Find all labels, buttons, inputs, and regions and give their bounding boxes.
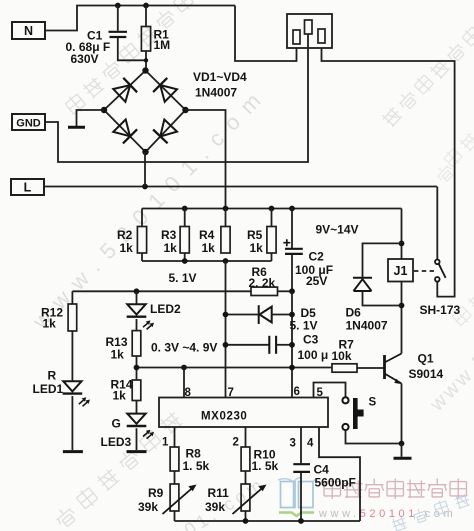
- node D5 left: [223, 312, 229, 318]
- svg-text:R2: R2: [117, 228, 133, 242]
- resistor R5: [267, 227, 276, 254]
- svg-text:7: 7: [228, 387, 234, 399]
- svg-text:1. 5k: 1. 5k: [252, 459, 279, 473]
- wire C1 bottom lead: [118, 38, 146, 61]
- wire bottom ground bus: [175, 520, 361, 522]
- resistor R11 variable: [241, 484, 250, 511]
- wire R14 to LED3: [136, 401, 138, 414]
- node ground R11: [243, 518, 249, 524]
- wire R3 top lead: [184, 209, 186, 227]
- LED LED3: [127, 414, 147, 426]
- watermark logo book icon: [278, 478, 318, 517]
- node bus R4: [223, 206, 229, 212]
- watermark diagonal text right-middle: [450, 289, 474, 328]
- svg-text:2: 2: [233, 437, 239, 449]
- wire R13 to R14: [136, 356, 138, 380]
- node bus R3: [182, 206, 188, 212]
- node J1 top: [399, 241, 405, 247]
- arrow R9 wiper: [163, 485, 197, 515]
- wire Q1 collector: [401, 306, 403, 354]
- node D5 right: [289, 312, 295, 318]
- wire R1 top lead: [145, 6, 147, 27]
- resistor R8: [170, 447, 179, 471]
- node bus C2: [289, 206, 295, 212]
- svg-text:5. 1V: 5. 1V: [290, 319, 318, 333]
- wire R2-R5 bottom tie: [142, 260, 272, 262]
- svg-text:1k: 1k: [120, 241, 134, 255]
- wire bridge bottom to L line: [144, 152, 146, 187]
- wire positive bus: [142, 208, 402, 210]
- wire emitter to ground: [401, 444, 403, 457]
- svg-text:2. 2k: 2. 2k: [249, 276, 276, 290]
- wire connector pin3 to SH-173: [322, 48, 455, 297]
- wire J1 bottom: [401, 282, 403, 306]
- svg-text:G: G: [112, 417, 121, 431]
- svg-text:1k: 1k: [202, 241, 216, 255]
- svg-text:25V: 25V: [306, 274, 327, 288]
- resistor R6: [251, 287, 278, 295]
- svg-text:D6: D6: [346, 306, 362, 320]
- diode VD4: [153, 120, 177, 144]
- capacitor C2: [285, 249, 303, 254]
- node L bridge junction: [142, 184, 148, 190]
- resistor R4: [221, 227, 230, 254]
- wire sense line: [137, 367, 333, 369]
- svg-text:LED3: LED3: [101, 435, 132, 449]
- wire bridge left to earth: [77, 110, 105, 126]
- svg-text:1k: 1k: [111, 348, 125, 362]
- wire IC pin5 to switch S: [314, 383, 346, 398]
- switch S actuator: [353, 398, 364, 429]
- svg-text:1M: 1M: [154, 38, 171, 52]
- wire C2 node down to IC pin6: [291, 291, 293, 397]
- svg-text:10k: 10k: [332, 349, 352, 363]
- node R13 R14 sense: [134, 365, 140, 371]
- capacitor C4: [293, 464, 310, 472]
- node C1 top: [115, 3, 121, 9]
- terminal GND box: [12, 114, 45, 130]
- wire R2 top lead: [141, 209, 143, 227]
- wire bridge edge bottom-left: [104, 110, 146, 152]
- switch SH-173 contacts: [435, 260, 446, 282]
- wire bridge edge bottom-right: [146, 110, 186, 152]
- resistor R13: [132, 331, 141, 356]
- wire IC pin4 ground path: [319, 427, 360, 521]
- resistor R1: [141, 27, 150, 52]
- wire R4 top lead: [225, 209, 227, 227]
- node J1 bottom: [399, 303, 405, 309]
- wire R12 to LED1: [71, 331, 73, 381]
- svg-text:LED2: LED2: [150, 302, 181, 316]
- transistor Q1: [385, 354, 402, 384]
- wire top bus to connector pin1: [235, 6, 297, 62]
- node bridge left: [101, 107, 107, 113]
- node ground C4: [298, 518, 304, 524]
- wire S to emitter node: [346, 430, 402, 443]
- connector J2 pins: [293, 20, 325, 44]
- svg-text:1N4007: 1N4007: [195, 86, 237, 100]
- svg-text:S: S: [369, 397, 377, 409]
- svg-text:5. 1V: 5. 1V: [169, 271, 197, 285]
- ground LED1: [63, 450, 83, 453]
- svg-text:VD1~VD4: VD1~VD4: [193, 70, 247, 84]
- node rail LED2: [134, 288, 140, 294]
- svg-text:5: 5: [317, 387, 324, 399]
- ground emitter: [394, 457, 412, 460]
- wire C2 bottom lead: [291, 255, 293, 291]
- wire R5 bottom lead: [271, 253, 273, 261]
- arrow R11 wiper: [233, 485, 267, 515]
- diode D6: [353, 278, 372, 291]
- wire R4 node down to IC pin7: [225, 261, 227, 398]
- svg-text:MX0230: MX0230: [201, 411, 247, 423]
- resistor R3: [180, 227, 189, 254]
- relay J1 outline: [388, 259, 413, 282]
- watermark diagonal text top-right: [380, 25, 474, 128]
- wire C2 top lead: [291, 209, 293, 249]
- wire R3 bottom lead: [184, 253, 186, 261]
- wire LED2 top lead: [136, 291, 138, 304]
- watermark logo site name: [324, 479, 466, 500]
- node sense pin6: [289, 365, 295, 371]
- wire LED1 to ground: [71, 396, 73, 450]
- wire LED3 to ground: [136, 428, 138, 450]
- wire R10 to R11: [245, 471, 247, 484]
- svg-text:C3: C3: [303, 333, 319, 347]
- svg-text:1N4007: 1N4007: [346, 319, 388, 333]
- wire R9 bottom lead: [174, 511, 176, 521]
- svg-text:L: L: [24, 180, 32, 194]
- wire D5 left lead: [226, 314, 259, 316]
- resistor R14: [132, 380, 141, 401]
- svg-text:C4: C4: [314, 463, 330, 477]
- node C3 right: [289, 342, 295, 348]
- connector J2 outline: [287, 14, 332, 48]
- svg-text:9V~14V: 9V~14V: [316, 223, 359, 237]
- resistor R2: [137, 227, 146, 254]
- wire IC pin8 lead: [183, 368, 185, 398]
- wire bus to J1: [401, 209, 403, 260]
- terminal N box: [12, 22, 45, 39]
- svg-text:5600pF: 5600pF: [315, 476, 356, 490]
- wire bridge edge top-left: [104, 71, 146, 111]
- wire Q1 emitter: [401, 384, 403, 444]
- wire N to top bus: [45, 6, 235, 31]
- wire R5 top lead: [271, 209, 273, 227]
- svg-text:8: 8: [185, 387, 192, 399]
- watermark diagonal text bottom-right-corner: [391, 492, 471, 531]
- ground earth bridge: [68, 126, 85, 129]
- wire D5 right lead: [272, 314, 292, 316]
- svg-text:S9014: S9014: [409, 367, 444, 381]
- svg-text:Q1: Q1: [418, 352, 434, 366]
- svg-text:630V: 630V: [71, 52, 99, 66]
- LED LED2: [127, 304, 147, 316]
- diode VD2: [153, 78, 177, 102]
- node emitter ground: [399, 441, 405, 447]
- svg-text:R4: R4: [199, 228, 215, 242]
- wire bridge right to bus: [186, 110, 226, 209]
- wire LED2 to R13: [136, 319, 138, 331]
- resistor R12: [68, 304, 77, 331]
- wire C3 right lead: [276, 344, 292, 346]
- wire IC pin1 lead: [174, 427, 176, 447]
- wire L line: [44, 186, 437, 188]
- watermark diagonal text right-edge: [434, 131, 474, 184]
- wire R8 to R9: [174, 471, 176, 484]
- switch S contacts: [342, 397, 348, 430]
- svg-text:3: 3: [290, 438, 296, 450]
- wire 5.1V rail: [72, 290, 251, 292]
- node bridge right: [182, 107, 188, 113]
- op-amp U1 MX0230 outline: [159, 398, 328, 428]
- wire J1 dashed link: [414, 270, 436, 272]
- resistor R9 variable: [170, 484, 179, 511]
- svg-text:R5: R5: [247, 228, 263, 242]
- diode VD3: [113, 120, 137, 144]
- LED LED1: [63, 381, 83, 393]
- terminal L box: [11, 179, 44, 195]
- wire IC pin3 lead: [300, 427, 302, 463]
- svg-text:R: R: [48, 369, 57, 383]
- label C2 plus: [283, 239, 290, 246]
- svg-text:J1: J1: [394, 264, 408, 278]
- wire D6 bottom branch: [363, 291, 402, 306]
- wire GND to connector pin2: [45, 34, 308, 162]
- svg-text:1k: 1k: [43, 317, 57, 331]
- svg-text:1k: 1k: [250, 241, 264, 255]
- svg-text:0. 3V ~4. 9V: 0. 3V ~4. 9V: [151, 341, 217, 355]
- svg-text:6: 6: [294, 386, 300, 398]
- svg-text:39k: 39k: [138, 500, 158, 514]
- wire R11 bottom lead: [245, 511, 247, 521]
- svg-text:1: 1: [162, 437, 169, 449]
- wire R7 to Q1 base: [357, 367, 385, 369]
- diode D5: [259, 305, 272, 324]
- wire D6 top branch: [363, 243, 402, 277]
- node bridge top: [142, 67, 148, 73]
- svg-text:R9: R9: [148, 486, 164, 500]
- wire C4 bottom lead: [300, 473, 302, 521]
- svg-text:LED1: LED1: [33, 382, 64, 396]
- node tie R3: [182, 258, 188, 264]
- capacitor C3: [269, 336, 276, 354]
- node C2 bottom: [289, 288, 295, 294]
- svg-text:C2: C2: [309, 250, 325, 264]
- wire L line to SH-173: [436, 187, 438, 260]
- node C1 R1 junction: [144, 58, 148, 62]
- wire R12 top lead: [71, 291, 73, 304]
- node bus R5: [269, 206, 275, 212]
- node C3 left: [223, 342, 229, 348]
- watermark diagonal text bottom-left: [53, 410, 184, 530]
- wire R6 to C2 node: [278, 290, 293, 292]
- node R1 top: [143, 3, 149, 9]
- node tie R4: [223, 258, 229, 264]
- svg-text:1k: 1k: [164, 241, 178, 255]
- wire R2 bottom lead: [141, 253, 143, 261]
- svg-text:4: 4: [307, 438, 314, 450]
- node bridge bottom: [142, 149, 148, 155]
- svg-text:SH-173: SH-173: [420, 303, 461, 317]
- watermark diagonal text top-left: [63, 0, 195, 116]
- svg-text:R11: R11: [208, 486, 230, 500]
- ground LED3: [127, 450, 147, 453]
- svg-text:GND: GND: [16, 117, 41, 129]
- wire C1 top lead: [117, 6, 119, 31]
- resistor R10: [241, 447, 250, 471]
- diode VD1: [113, 78, 137, 102]
- wire R1 bottom lead: [145, 51, 147, 71]
- node sense pin8: [181, 365, 187, 371]
- capacitor C1: [109, 32, 128, 37]
- wire bridge edge top-right: [146, 71, 186, 111]
- svg-text:1k: 1k: [113, 389, 127, 403]
- svg-text:39k: 39k: [205, 500, 225, 514]
- svg-text:1. 5k: 1. 5k: [183, 459, 210, 473]
- wire IC pin2 lead: [245, 427, 247, 447]
- svg-text:N: N: [24, 24, 33, 38]
- resistor R7: [332, 364, 357, 372]
- svg-text:R3: R3: [161, 228, 177, 242]
- svg-text:100 μ: 100 μ: [298, 348, 329, 362]
- wire C3 left lead: [226, 344, 270, 346]
